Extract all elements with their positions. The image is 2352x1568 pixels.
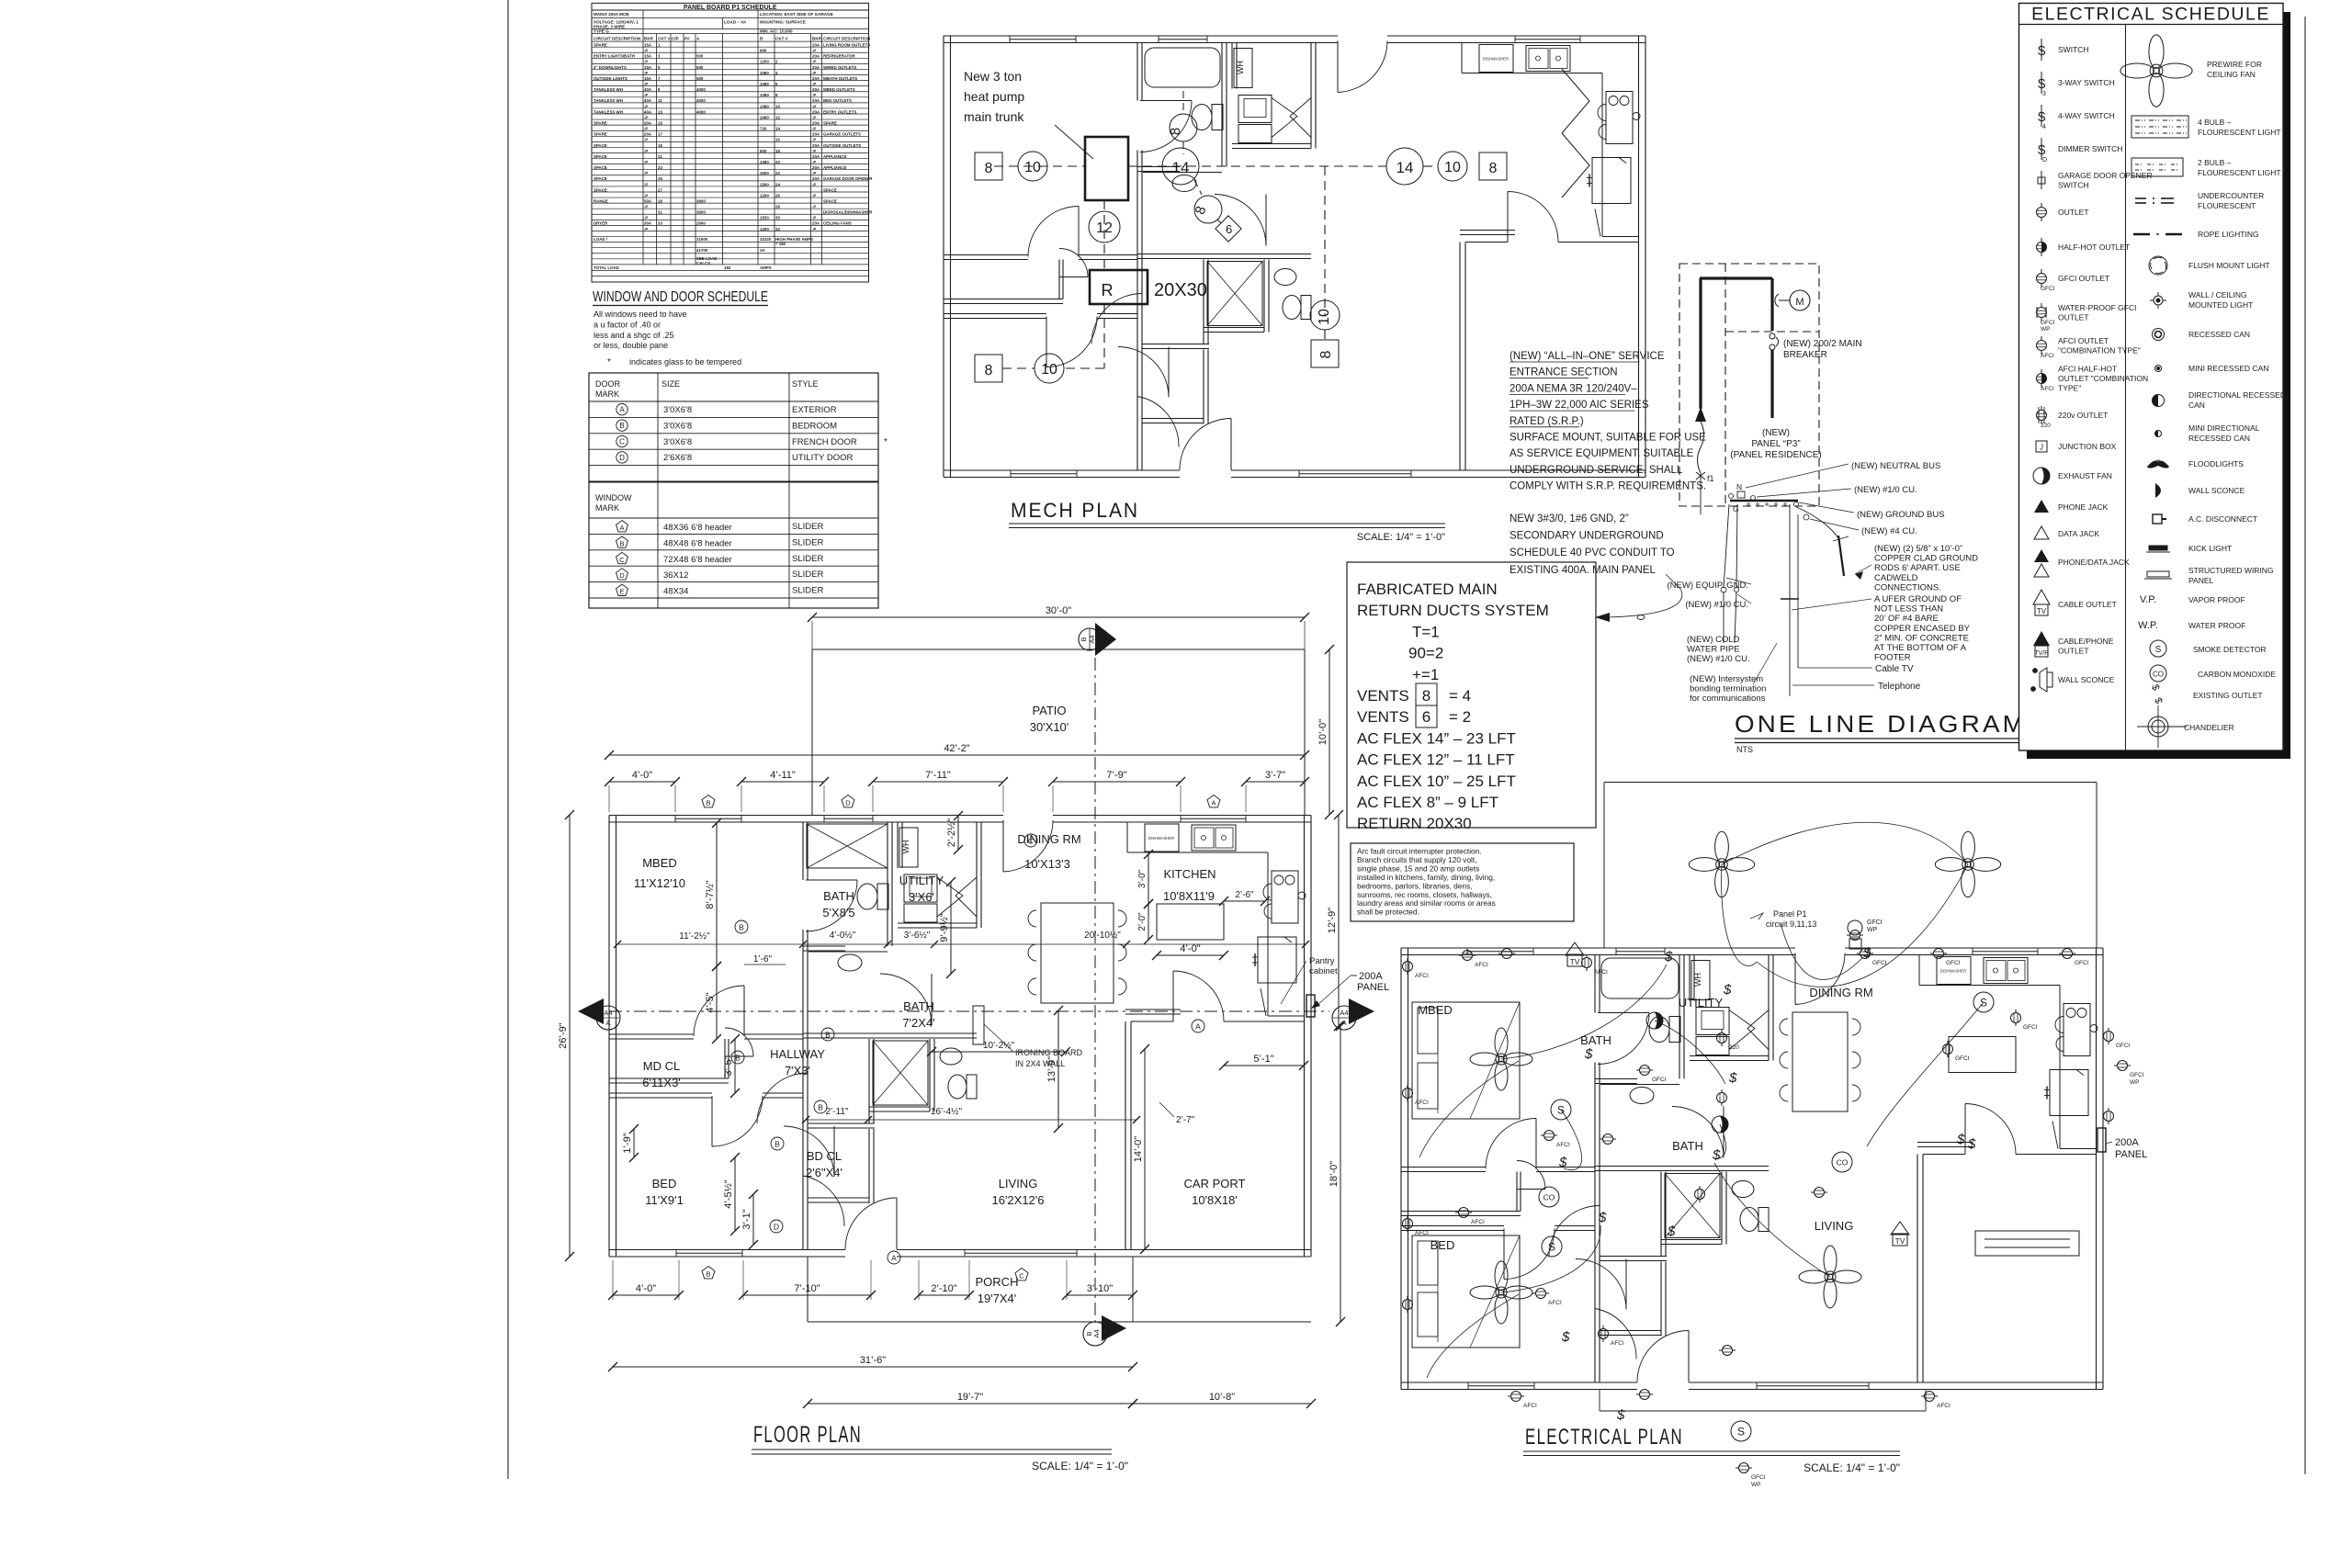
svg-text:-P: -P [644,104,648,108]
svg-text:B: B [619,539,624,547]
svg-text:2’-6": 2’-6" [1235,890,1254,900]
svg-text:A4: A4 [1340,1009,1348,1017]
svg-text:BD CL: BD CL [807,1149,842,1163]
svg-text:GFCI: GFCI [1955,1055,1970,1062]
window tag B [702,1267,715,1279]
svg-text:50A: 50A [644,198,652,203]
svg-text:20A: 20A [812,176,820,181]
legend cablephone [2033,631,2050,646]
svg-text:D: D [845,799,851,807]
svg-text:ROPE LIGHTING: ROPE LIGHTING [2198,230,2259,239]
svg-text:WH: WH [901,840,910,854]
svg-text:1080: 1080 [760,71,769,75]
legend AC disconnect [2153,514,2162,524]
svg-text:UTILITY: UTILITY [1679,996,1724,1010]
svg-text:WINDOW AND DOOR SCHEDULE: WINDOW AND DOOR SCHEDULE [593,289,768,305]
dim 9-9.5 vertical [950,882,952,974]
svg-text:RECESSED CAN: RECESSED CAN [2188,330,2250,339]
dim 4-5 vertical [716,966,718,1039]
svg-text:-P: -P [644,115,648,119]
window bottom C [965,1249,1077,1251]
svg-text:(NEW) NEUTRAL BUS: (NEW) NEUTRAL BUS [1851,461,1940,471]
door C french door arc [1002,820,1004,872]
svg-text:TV: TV [1895,1236,1905,1246]
svg-text:1200: 1200 [760,193,769,197]
svg-text:(NEW) “ALL–IN–ONE” SERVICE: (NEW) “ALL–IN–ONE” SERVICE [1510,351,1665,362]
svg-text:10: 10 [775,104,780,108]
svg-text:APPLIANCE: APPLIANCE [823,154,846,159]
svg-text:TV: TV [2037,607,2047,615]
outlet [1695,1186,1705,1202]
svg-text:+=1: +=1 [1412,666,1439,683]
door A carport entry arc [1172,971,1174,1021]
svg-text:48X36 6'8 header: 48X36 6'8 header [663,523,732,533]
svg-text:200A NEMA 3R 120/240V–: 200A NEMA 3R 120/240V– [1510,383,1637,394]
legend outletH [2037,243,2047,253]
svg-text:bonding termination: bonding termination [1690,684,1766,694]
svg-text:15A: 15A [644,43,652,48]
svg-text:20A: 20A [644,132,652,137]
svg-text:DIRECTIONAL RECESSED: DIRECTIONAL RECESSED [2188,390,2286,400]
svg-text:-P: -P [644,93,648,97]
svg-text:AFCI: AFCI [1556,1142,1570,1148]
dim 2-11 and 16-4.5 chain [806,1119,1136,1121]
svg-text:RETURN 20X30: RETURN 20X30 [1357,815,1472,832]
svg-text:DISHWASHER: DISHWASHER [1148,836,1174,840]
wire run [1716,1124,1726,1159]
svg-text:CO: CO [1543,1193,1555,1202]
svg-text:2 BULB –: 2 BULB – [2198,158,2232,167]
svg-text:SPACE: SPACE [594,165,607,170]
svg-text:220: 220 [2041,423,2051,429]
service dashed enclosure [1679,264,1819,506]
window top B [675,815,741,817]
svg-text:500: 500 [696,54,704,59]
svg-text:SCHEDULE 40 PVC CONDUIT TO: SCHEDULE 40 PVC CONDUIT TO [1510,547,1675,558]
svg-text:GFCI: GFCI [2075,960,2089,966]
svg-text:4’-0": 4’-0" [632,770,652,781]
svg-text:18’-0": 18’-0" [1329,1161,1340,1187]
legend mini directional [2155,431,2162,437]
svg-text:AS SERVICE EQUIPMENT. SUITA: AS SERVICE EQUIPMENT. SUITABLE [1510,448,1694,459]
svg-text:WALL / CEILING: WALL / CEILING [2188,290,2247,299]
utility bifold doors [937,877,963,917]
CO detector [1832,1152,1852,1172]
svg-text:19'7X4': 19'7X4' [978,1292,1017,1305]
svg-text:MIN. AIC: 10,000: MIN. AIC: 10,000 [760,29,793,34]
svg-text:SPARE: SPARE [594,120,607,125]
svg-text:CKT #: CKT # [658,37,671,41]
svg-text:COPPER ENCASED BY: COPPER ENCASED BY [1874,624,1971,634]
svg-text:18: 18 [775,149,780,153]
svg-text:"COMBINATION TYPE": "COMBINATION TYPE" [2058,345,2141,355]
svg-text:-P: -P [812,93,816,97]
svg-text:42’-2": 42’-2" [944,743,969,754]
legend prewire ceiling fan [2120,35,2192,107]
svg-text:-P: -P [812,138,816,142]
svg-text:AMPS: AMPS [760,265,772,270]
svg-text:-P: -P [644,160,648,164]
exhaust fan [1646,1012,1663,1029]
svg-text:SMOKE DETECTOR: SMOKE DETECTOR [2193,645,2267,654]
svg-text:16'2X12'6: 16'2X12'6 [991,1193,1044,1207]
door tag B [731,1051,744,1064]
svg-text:-P: -P [812,227,816,231]
wire run [1781,923,1863,979]
svg-text:HALLWAY: HALLWAY [770,1047,825,1061]
svg-text:1080: 1080 [760,160,769,164]
window mark B row [616,536,628,547]
svg-text:12: 12 [775,115,780,119]
hallway door arc [807,1073,808,1123]
svg-text:cabinet: cabinet [1309,966,1338,976]
legend switchD [2041,138,2042,160]
svg-text:AFCI: AFCI [1415,973,1429,979]
svg-text:2’-10": 2’-10" [931,1283,956,1294]
dim 10-0 right (patio) [1329,649,1330,815]
duct size circle 12 [1089,211,1120,243]
svg-text:30’-0": 30’-0" [1046,605,1071,616]
svg-text:main trunk: main trunk [964,109,1024,124]
legend switch3 [2041,72,2042,94]
dim 31-6 [613,1366,1133,1368]
svg-text:Telephone: Telephone [1878,682,1921,692]
window top D [824,815,873,817]
svg-text:MINI RECESSED CAN: MINI RECESSED CAN [2188,364,2268,373]
outlet [1921,1392,1938,1402]
svg-text:SCALE: 1/4" = 1’-0": SCALE: 1/4" = 1’-0" [1804,1461,1900,1474]
svg-text:f1: f1 [1707,474,1714,483]
svg-text:APPLIANCE: APPLIANCE [823,165,846,170]
door mark B row [616,420,628,431]
svg-text:20A: 20A [812,154,820,159]
svg-text:UNDERGROUND SERVICE. SHALL: UNDERGROUND SERVICE. SHALL [1510,465,1683,476]
door mark C row [616,435,628,446]
legend wall/ceiling mounted light [2154,296,2163,305]
BED top wall [609,1092,712,1094]
svg-text:SWITCH: SWITCH [2058,180,2089,189]
svg-text:$: $ [1667,1224,1676,1239]
svg-text:1080: 1080 [760,93,769,97]
svg-text:$: $ [1584,1046,1593,1062]
svg-text:1500: 1500 [760,171,769,175]
kick light living [1975,1231,2079,1256]
svg-text:LIVING: LIVING [999,1177,1038,1190]
svg-text:-P: -P [644,49,648,53]
svg-text:JUNCTION BOX: JUNCTION BOX [2058,442,2117,451]
bath2 door arc [931,974,933,1025]
ceiling fan patio 2 [1935,831,2000,897]
svg-text:A UFER GROUND OF: A UFER GROUND OF [1874,594,1962,604]
svg-text:20X30: 20X30 [1154,280,1207,300]
dim 4-5.5 vertical [734,1157,736,1231]
svg-text:GFCI: GFCI [1867,919,1883,926]
svg-text:$: $ [1664,949,1673,964]
kitchen-entry wall stub [1125,1009,1181,1010]
svg-text:3: 3 [2042,91,2046,97]
svg-text:COMPLY WITH S.R.P. REQUIREM: COMPLY WITH S.R.P. REQUIREMENTS. [1510,481,1706,492]
svg-text:AFCI: AFCI [2041,353,2054,359]
leader to main panel [1666,574,1680,589]
svg-text:1080: 1080 [760,115,769,119]
svg-text:AFCI: AFCI [1523,1403,1537,1409]
svg-text:B: B [1080,637,1088,641]
outlet [1459,951,1476,961]
svg-text:A: A [619,406,625,414]
outlet [1508,1392,1524,1402]
exhaust fan [1712,1116,1728,1133]
svg-text:AFCI: AFCI [1611,1340,1624,1347]
svg-text:BEDROOM: BEDROOM [792,421,837,431]
panel board P1 schedule table [592,3,873,282]
dim 1-9 vertical [633,1129,635,1157]
svg-text:DRYER: DRYER [594,221,608,226]
master bath sink [838,954,862,971]
svg-text:BED: BED [1430,1238,1455,1252]
dim 3-0 vertical kitchen [1148,854,1149,904]
svg-text:FABRICATED MAIN: FABRICATED MAIN [1357,581,1498,598]
svg-text:20A: 20A [812,98,820,103]
svg-text:-P: -P [812,216,816,220]
svg-text:220: 220 [1729,1044,1739,1051]
svg-text:SIZE: SIZE [661,379,680,389]
bath2 walls [929,1039,931,1111]
svg-text:A4: A4 [604,1009,612,1017]
ironing board [973,1006,984,1044]
svg-text:1PH–3W 22,000 AIC SERIES: 1PH–3W 22,000 AIC SERIES [1510,400,1649,411]
svg-text:500: 500 [696,76,704,81]
svg-text:4’-0": 4’-0" [636,1283,656,1294]
svg-text:T=1: T=1 [1412,623,1440,640]
svg-text:900: 900 [760,149,767,153]
svg-text:TANKLESS WH: TANKLESS WH [594,109,623,114]
door tag A [888,1251,900,1264]
svg-text:SWITCH: SWITCH [2058,45,2089,54]
dim 18-0 right [1340,1026,1341,1322]
outlet [1736,1463,1752,1473]
svg-text:1080: 1080 [760,104,769,108]
window bottom B [676,1249,742,1251]
svg-text:4000: 4000 [696,98,706,103]
bath duct branch circle 8 [1182,91,1184,114]
legend kick light [2149,546,2167,550]
breaker to panel conductor [1770,350,1773,418]
svg-text:13: 13 [658,109,662,114]
svg-text:BATH: BATH [1672,1139,1703,1153]
svg-text:2’-7": 2’-7" [1176,1115,1195,1125]
svg-text:R: R [1102,281,1114,299]
svg-text:20A: 20A [812,43,820,48]
svg-text:-P: -P [812,205,816,209]
svg-text:SLIDER: SLIDER [792,522,823,532]
svg-text:SECONDARY UNDERGROUND: SECONDARY UNDERGROUND [1510,531,1664,542]
duct size circle 14 [1162,148,1199,185]
legend switch [2041,39,2042,61]
svg-text:A: A [619,524,624,532]
svg-text:AC FLEX 8” – 9 LFT: AC FLEX 8” – 9 LFT [1357,794,1498,811]
svg-text:-P: -P [644,149,648,153]
svg-text:32220: 32220 [760,237,772,242]
outlet [1943,1041,1953,1057]
legend switch4 [2041,105,2042,127]
svg-text:LOCATION: EAST SIDE OF GARAGE: LOCATION: EAST SIDE OF GARAGE [760,12,833,17]
svg-text:STRUCTURED WIRING: STRUCTURED WIRING [2188,566,2274,575]
svg-text:10'8X11'9: 10'8X11'9 [1163,889,1215,903]
svg-text:(NEW) #1/0 CU.: (NEW) #1/0 CU. [1854,485,1917,495]
svg-text:*: * [884,437,888,447]
svg-text:-P: -P [812,171,816,175]
200A panel (floor) [1306,995,1315,1017]
svg-text:AFCI HALF-HOT: AFCI HALF-HOT [2058,365,2117,374]
cable TV outlet [1566,942,1584,955]
svg-text:ENTRY OUTLETS: ENTRY OUTLETS [823,109,856,114]
svg-text:SLIDER: SLIDER [792,586,823,596]
top sub dims [609,781,675,783]
svg-text:-P: -P [812,49,816,53]
svg-text:PHONE JACK: PHONE JACK [2058,502,2109,512]
legend floodlights [2147,460,2160,468]
legend mini recessed can [2155,366,2162,372]
svg-text:FOOTER: FOOTER [1874,653,1911,663]
svg-text:22: 22 [775,171,780,175]
svg-text:31: 31 [658,210,662,215]
svg-text:4’-5½": 4’-5½" [723,1179,734,1209]
svg-text:3’-10": 3’-10" [1087,1283,1113,1294]
svg-text:PANEL: PANEL [2115,1149,2147,1160]
legend recessed can [2153,329,2165,341]
svg-text:(NEW) EQUIP. GND.: (NEW) EQUIP. GND. [1668,581,1749,591]
svg-text:-P: -P [644,60,648,64]
svg-text:SPARE: SPARE [823,120,837,125]
dim 42-2 [609,754,1305,756]
svg-text:GFCI: GFCI [2041,286,2055,292]
dining table with chairs [1041,903,1114,1003]
svg-text:MOUNTED LIGHT: MOUNTED LIGHT [2188,300,2253,310]
svg-text:$: $ [1728,1070,1737,1086]
svg-text:TV: TV [1570,957,1580,966]
svg-text:GARAGE OUTLETS: GARAGE OUTLETS [823,132,861,137]
svg-text:BATH: BATH [823,889,854,903]
svg-text:A: A [1195,1021,1201,1031]
svg-text:G: G [1733,504,1739,513]
svg-text:AFCI: AFCI [1475,962,1488,968]
svg-text:(NEW) COLD: (NEW) COLD [1687,635,1740,645]
svg-text:AFCI: AFCI [1594,969,1608,976]
wire run [1714,1163,1830,1277]
svg-text:D: D [2042,157,2047,164]
svg-text:DINING RM: DINING RM [1809,986,1872,999]
svg-text:11’-2½": 11’-2½" [679,931,710,942]
legend carbon monoxide [2150,665,2166,682]
dim 12-9 right [1338,815,1340,1026]
house left wall [608,816,610,1258]
svg-text:15A: 15A [644,65,652,70]
svg-text:REFRIGERATOR: REFRIGERATOR [823,54,856,59]
svg-text:indicates glass to be temp: indicates glass to be tempered [629,357,741,367]
svg-text:-P: -P [812,182,816,186]
svg-text:OUTLET: OUTLET [2058,312,2089,321]
svg-text:KITCHEN: KITCHEN [1163,867,1216,881]
svg-text:CAN: CAN [2188,400,2205,410]
svg-text:-P: -P [644,216,648,220]
kitchen sink [1192,825,1236,851]
svg-text:6: 6 [1226,222,1232,236]
legend shadow [2283,12,2290,759]
svg-text:C: C [619,438,625,446]
svg-text:3600: 3600 [696,210,706,215]
svg-text:less and a shgc of .25: less and a shgc of .25 [594,331,674,340]
duct vertical branch [1103,200,1105,270]
svg-text:VENTS: VENTS [1357,708,1409,726]
svg-text:CKT #: CKT # [775,37,788,41]
svg-text:AC FLEX 12” – 11 LFT: AC FLEX 12” – 11 LFT [1357,751,1515,769]
svg-text:DISPOSAL/DISHWASHER: DISPOSAL/DISHWASHER [823,210,873,215]
outlet [1636,1066,1653,1076]
svg-text:TANKLESS WH: TANKLESS WH [594,87,623,92]
svg-text:FLOODLIGHTS: FLOODLIGHTS [2188,459,2244,468]
porch (electrical) [1599,1389,1600,1411]
svg-text:DINING RM: DINING RM [1017,832,1080,846]
svg-text:-P: -P [812,82,816,86]
svg-text:90=2: 90=2 [1408,645,1443,662]
svg-text:Pantry: Pantry [1309,956,1335,966]
svg-text:WP: WP [2041,326,2050,333]
svg-text:$: $ [1723,982,1732,998]
wall utility right [976,822,978,928]
kitchen duct branch 14-10-8 [1386,148,1423,185]
svg-text:GFCI: GFCI [2023,1024,2038,1031]
svg-text:220v OUTLET: 220v OUTLET [2058,411,2108,420]
svg-text:2600: 2600 [696,221,706,226]
mech tub [1145,48,1220,87]
section marker A4/A right [1349,998,1374,1024]
svg-text:-P: -P [644,138,648,142]
svg-text:AFCI OUTLET: AFCI OUTLET [2058,336,2109,345]
svg-text:$: $ [2038,109,2046,125]
wall WH/utility left [897,822,899,868]
svg-text:27: 27 [658,187,662,192]
legend afci [2037,341,2047,351]
svg-text:WP: WP [2130,1079,2139,1086]
svg-text:14: 14 [1396,159,1414,176]
svg-text:30'X10': 30'X10' [1030,720,1069,734]
svg-text:D: D [619,571,625,580]
svg-text:UNDERCOUNTER: UNDERCOUNTER [2198,191,2264,200]
outlet [2011,1010,2021,1026]
svg-text:200A: 200A [1359,971,1383,982]
svg-text:-P: -P [812,149,816,153]
svg-text:2'6"X4': 2'6"X4' [806,1166,842,1179]
svg-text:(NEW) 200/2 MAIN: (NEW) 200/2 MAIN [1783,339,1862,349]
house outer top wall [609,815,675,817]
svg-text:UTILITY: UTILITY [899,874,944,887]
outlet [1930,949,1947,959]
hallway right wall [868,1039,870,1123]
svg-text:20: 20 [775,160,780,164]
svg-text:-P: -P [812,115,816,119]
svg-text:D: D [619,454,625,462]
svg-text:CO: CO [2153,671,2164,679]
svg-text:FLOURESCENT LIGHT: FLOURESCENT LIGHT [2198,128,2281,137]
svg-text:20A: 20A [812,132,820,137]
svg-text:3’-5": 3’-5" [723,1055,734,1076]
svg-text:MARK: MARK [595,503,619,513]
bath1/hall wall [803,1032,934,1034]
CO detector [1539,1187,1559,1207]
table column lines [642,34,644,265]
window mark E row [616,584,628,595]
svg-text:DOOR: DOOR [595,379,621,389]
